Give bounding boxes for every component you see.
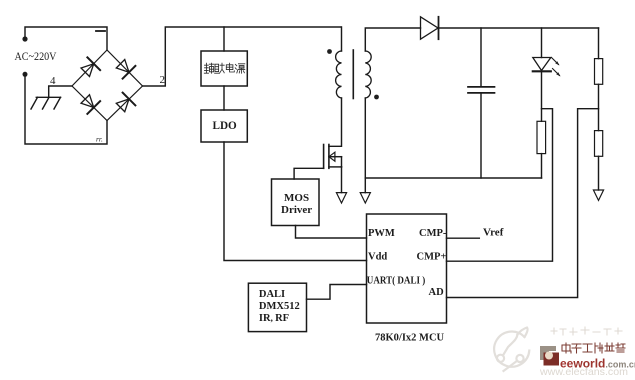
AC source terminal dot top [22, 36, 27, 41]
wire bridge left vertex to chassis ground [49, 86, 72, 97]
ground arrow under divider [593, 190, 603, 200]
svg-text:LDO: LDO [213, 120, 238, 132]
LDO box [201, 110, 247, 142]
output diode D5 [421, 17, 439, 39]
CMP+ tap wire [447, 109, 553, 262]
bridge diamond wires [72, 50, 143, 121]
svg-text:CMP+: CMP+ [417, 252, 447, 263]
svg-text:rr.: rr. [96, 135, 103, 144]
wire secondary bottom to ground [364, 98, 366, 193]
output rail after diode [439, 27, 599, 29]
diode D2 top-right (points to right vertex) [114, 57, 135, 78]
svg-text:Driver: Driver [281, 204, 312, 216]
wire R2 to R3 [598, 84, 600, 130]
MCU U1 box [367, 214, 447, 323]
ground arrow under secondary [360, 193, 370, 203]
LED emission arrows [552, 58, 561, 77]
wire bridge right vertex to top DC rail [143, 27, 342, 86]
svg-text:AD: AD [429, 287, 445, 298]
svg-text:78K0/Ix2 MCU: 78K0/Ix2 MCU [375, 333, 445, 344]
wire primary bottom to MOSFET drain [329, 98, 342, 146]
wire aux to LDO [223, 86, 225, 110]
transformer T1 secondary winding [365, 51, 371, 98]
svg-text:Vref: Vref [483, 227, 504, 239]
watermark logo circuit glyph [494, 328, 529, 372]
watermark eeworld logo mark [540, 346, 559, 366]
ground arrow under MOSFET [336, 193, 346, 203]
wire LED cathode down to sense resistor [541, 71, 543, 121]
svg-text:2: 2 [160, 74, 166, 86]
wire MOSFET gate to MOS driver [294, 168, 324, 179]
resistor R3 [595, 131, 603, 157]
minus polarity mark [96, 30, 105, 32]
AD tap wire [447, 109, 599, 298]
wire R3 to ground [598, 156, 600, 190]
svg-text:www.elecfans.com: www.elecfans.com [539, 366, 628, 378]
output capacitor C1 branch wire top [480, 28, 482, 86]
transformer T1 primary winding [336, 51, 342, 98]
MOSFET Q1 [324, 145, 342, 169]
sense resistor R1 [537, 121, 546, 153]
svg-text:Vdd: Vdd [368, 252, 387, 263]
aux power supply box (辅助电源) [201, 51, 247, 86]
wire secondary top to output rail [365, 28, 420, 51]
MOS driver box [272, 179, 320, 226]
wire LDO to MCU Vdd [224, 142, 367, 261]
svg-text:4: 4 [50, 75, 56, 87]
resistor R2 [595, 59, 603, 85]
aux power supply label glyphs [204, 63, 245, 73]
bottom return rail [365, 177, 541, 179]
wire aux supply feed [223, 27, 225, 51]
wire MOSFET source to ground [341, 167, 343, 193]
divider branch from rail [598, 28, 600, 59]
AC source terminal dot bottom [23, 72, 28, 77]
transformer T1 primary lead from rail [341, 27, 343, 51]
wire MOS driver to MCU PWM [296, 226, 367, 239]
svg-text:PWM: PWM [368, 228, 395, 239]
wire CMP- to Vref [447, 237, 480, 239]
wire sense resistor to bottom rail [541, 154, 543, 178]
primary phasing dot [327, 49, 332, 54]
wire AC bottom terminal to bridge bottom vertex [25, 74, 107, 144]
svg-text:DMX512: DMX512 [259, 301, 300, 312]
transformer core [352, 50, 354, 99]
secondary phasing dot [374, 95, 379, 100]
chassis ground [31, 97, 61, 109]
capacitor C1 plates [468, 86, 495, 88]
svg-text:DALI: DALI [259, 289, 285, 300]
wire LED branch from rail [541, 28, 543, 58]
diode D3 bottom-left (points to bottom vertex) [79, 93, 100, 114]
wire DALI box to MCU UART [307, 285, 367, 300]
svg-text:IR, RF: IR, RF [259, 313, 289, 324]
DALI interface box [248, 283, 306, 331]
svg-text:AC~220V: AC~220V [15, 51, 57, 63]
LED D6 [533, 58, 551, 72]
svg-text:CMP-: CMP- [419, 228, 447, 239]
watermark chinese title 电子工程世界 [562, 343, 625, 353]
capacitor C1 branch wire bottom [480, 94, 482, 179]
svg-text:MOS: MOS [284, 192, 309, 204]
wire AC top terminal to bridge top vertex [25, 27, 107, 50]
diode D1 top-left (points to top vertex) [79, 57, 100, 78]
svg-text:UART( DALI ): UART( DALI ) [367, 276, 426, 287]
diode D4 bottom-right (points to right vertex) [114, 93, 135, 114]
